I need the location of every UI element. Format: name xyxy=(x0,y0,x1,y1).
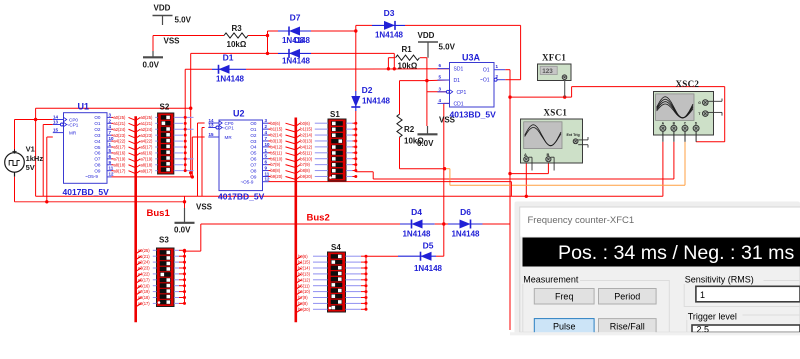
svg-text:13: 13 xyxy=(209,122,215,127)
svg-text:Period: Period xyxy=(614,291,640,301)
svg-text:U1: U1 xyxy=(78,102,90,112)
svg-text:VSS: VSS xyxy=(164,37,181,46)
svg-text:XSC2: XSC2 xyxy=(676,79,700,89)
svg-text:O6: O6 xyxy=(94,151,101,156)
svg-text:15: 15 xyxy=(53,127,59,132)
svg-text:D1: D1 xyxy=(223,53,234,63)
svg-text:O8: O8 xyxy=(250,168,257,173)
svg-text:b5(11): b5(11) xyxy=(298,283,310,288)
svg-text:Freq: Freq xyxy=(555,291,574,301)
svg-text:U2: U2 xyxy=(233,109,245,119)
svg-text:Pos. : 34 ms / Neg. : 31 ms: Pos. : 34 ms / Neg. : 31 ms xyxy=(558,242,795,264)
svg-text:b7(9): b7(9) xyxy=(298,295,308,300)
svg-text:O2: O2 xyxy=(94,127,101,132)
svg-text:CD1: CD1 xyxy=(454,101,464,107)
svg-text:O3: O3 xyxy=(250,139,257,144)
svg-text:D6: D6 xyxy=(460,207,471,217)
svg-text:U3A: U3A xyxy=(462,53,481,63)
svg-text:~CP1: ~CP1 xyxy=(222,126,234,131)
svg-text:a9(17): a9(17) xyxy=(114,168,126,173)
svg-text:a8(18): a8(18) xyxy=(141,162,153,167)
svg-text:b6(10): b6(10) xyxy=(271,156,283,161)
svg-text:MR: MR xyxy=(225,135,233,140)
svg-text:b9(20): b9(20) xyxy=(298,307,310,312)
svg-text:123: 123 xyxy=(542,68,553,75)
svg-text:D5: D5 xyxy=(423,241,434,251)
svg-text:10kΩ: 10kΩ xyxy=(227,40,247,49)
svg-text:SD1: SD1 xyxy=(454,67,464,73)
svg-text:b0(6): b0(6) xyxy=(300,121,310,126)
svg-text:a5(17): a5(17) xyxy=(114,145,126,150)
svg-text:V1: V1 xyxy=(26,145,35,154)
svg-text:b8(8): b8(8) xyxy=(298,301,308,306)
svg-text:O7: O7 xyxy=(250,162,257,167)
svg-text:O1: O1 xyxy=(94,121,101,126)
svg-text:a3(23): a3(23) xyxy=(138,266,150,271)
svg-text:b3(13): b3(13) xyxy=(300,139,312,144)
svg-text:a7(19): a7(19) xyxy=(138,289,150,294)
svg-text:a2(24): a2(24) xyxy=(114,127,126,132)
svg-text:b9(20): b9(20) xyxy=(271,174,283,179)
svg-text:a8(18): a8(18) xyxy=(138,295,150,300)
svg-text:1N4148: 1N4148 xyxy=(282,57,311,66)
svg-text:b5(11): b5(11) xyxy=(271,150,283,155)
svg-text:1kHz: 1kHz xyxy=(26,154,44,163)
svg-text:D3: D3 xyxy=(384,8,395,18)
svg-text:a3(23): a3(23) xyxy=(141,133,153,138)
svg-text:b4(12): b4(12) xyxy=(300,144,312,149)
svg-text:Frequency counter-XFC1: Frequency counter-XFC1 xyxy=(528,215,635,226)
svg-text:a2(24): a2(24) xyxy=(138,260,150,265)
svg-text:XSC1: XSC1 xyxy=(544,108,568,118)
svg-text:1N4148: 1N4148 xyxy=(451,230,480,239)
svg-text:a8(18): a8(18) xyxy=(114,162,126,167)
svg-text:0.0V: 0.0V xyxy=(174,225,191,234)
svg-text:10kΩ: 10kΩ xyxy=(398,62,418,71)
svg-text:D1: D1 xyxy=(454,78,461,84)
svg-text:a0(25): a0(25) xyxy=(138,248,150,253)
svg-text:~O5-9: ~O5-9 xyxy=(241,180,254,185)
svg-text:a1(21): a1(21) xyxy=(138,254,150,259)
svg-text:1: 1 xyxy=(700,290,705,300)
svg-text:Trigger level: Trigger level xyxy=(688,312,737,322)
svg-text:10: 10 xyxy=(265,142,271,147)
svg-text:Bus1: Bus1 xyxy=(147,208,171,219)
svg-text:VDD: VDD xyxy=(418,31,435,40)
svg-text:a6(16): a6(16) xyxy=(141,151,153,156)
svg-text:a9(17): a9(17) xyxy=(138,301,150,306)
svg-text:G: G xyxy=(698,101,701,105)
svg-text:b8(8): b8(8) xyxy=(300,168,310,173)
svg-text:O4: O4 xyxy=(94,139,101,144)
svg-text:13: 13 xyxy=(53,119,59,124)
svg-text:a1(21): a1(21) xyxy=(141,121,153,126)
svg-text:a9(17): a9(17) xyxy=(141,168,153,173)
svg-text:b6(10): b6(10) xyxy=(300,156,312,161)
svg-text:0.0V: 0.0V xyxy=(143,61,160,70)
svg-text:O5: O5 xyxy=(250,151,257,156)
svg-text:4017BD_5V: 4017BD_5V xyxy=(218,192,265,202)
svg-text:a7(19): a7(19) xyxy=(141,156,153,161)
svg-text:Bus2: Bus2 xyxy=(307,213,330,224)
svg-text:O8: O8 xyxy=(94,163,101,168)
svg-text:b7(9): b7(9) xyxy=(271,162,281,167)
svg-text:~O5-9: ~O5-9 xyxy=(85,174,98,179)
svg-text:VDD: VDD xyxy=(154,4,171,13)
svg-text:Sensitivity (RMS): Sensitivity (RMS) xyxy=(685,275,754,285)
svg-text:O1: O1 xyxy=(483,68,490,74)
svg-text:S4: S4 xyxy=(331,243,341,252)
svg-text:b2(14): b2(14) xyxy=(271,133,283,138)
svg-text:a3(23): a3(23) xyxy=(114,133,126,138)
svg-text:a4(22): a4(22) xyxy=(114,139,126,144)
svg-text:a6(16): a6(16) xyxy=(138,283,150,288)
svg-text:b8(8): b8(8) xyxy=(271,168,281,173)
svg-text:b0(6): b0(6) xyxy=(271,121,281,126)
svg-text:Ext Trig: Ext Trig xyxy=(567,133,580,137)
svg-text:Pulse: Pulse xyxy=(553,322,576,332)
svg-text:b7(9): b7(9) xyxy=(300,162,310,167)
svg-text:4017BD_5V: 4017BD_5V xyxy=(63,187,110,197)
svg-text:a0(25): a0(25) xyxy=(114,115,126,120)
svg-text:R3: R3 xyxy=(232,24,243,33)
svg-text:b1(15): b1(15) xyxy=(300,127,312,132)
svg-text:b3(13): b3(13) xyxy=(271,139,283,144)
svg-text:b1(15): b1(15) xyxy=(271,127,283,132)
svg-text:O1: O1 xyxy=(250,127,257,132)
svg-text:Rise/Fall: Rise/Fall xyxy=(610,322,645,332)
svg-text:b3(13): b3(13) xyxy=(298,272,310,277)
svg-text:O3: O3 xyxy=(94,133,101,138)
svg-text:O9: O9 xyxy=(94,168,101,173)
svg-text:a6(16): a6(16) xyxy=(114,151,126,156)
svg-text:b4(12): b4(12) xyxy=(298,277,310,282)
svg-text:1N4148: 1N4148 xyxy=(216,75,245,84)
svg-text:15: 15 xyxy=(209,132,215,137)
svg-text:5V: 5V xyxy=(26,163,35,172)
svg-text:S2: S2 xyxy=(160,103,170,112)
svg-text:b1(15): b1(15) xyxy=(298,260,310,265)
svg-text:0.0V: 0.0V xyxy=(417,139,434,148)
svg-text:12: 12 xyxy=(265,176,271,181)
svg-text:5.0V: 5.0V xyxy=(439,43,456,52)
svg-text:a4(22): a4(22) xyxy=(138,272,150,277)
svg-text:b2(14): b2(14) xyxy=(300,133,312,138)
svg-text:a4(22): a4(22) xyxy=(141,139,153,144)
svg-text:CP1: CP1 xyxy=(457,90,467,96)
svg-text:O5: O5 xyxy=(94,145,101,150)
svg-text:~CP1: ~CP1 xyxy=(67,123,79,128)
svg-text:1N4148: 1N4148 xyxy=(402,230,431,239)
svg-text:R1: R1 xyxy=(402,45,413,54)
svg-text:1N4148: 1N4148 xyxy=(414,264,443,273)
svg-text:1N4148: 1N4148 xyxy=(375,31,404,40)
svg-text:S3: S3 xyxy=(159,236,169,245)
svg-text:MR: MR xyxy=(69,131,77,136)
svg-text:5.0V: 5.0V xyxy=(175,16,192,25)
svg-text:D7: D7 xyxy=(290,13,301,23)
svg-text:a2(24): a2(24) xyxy=(141,127,153,132)
svg-text:D4: D4 xyxy=(411,207,422,217)
svg-text:a5(17): a5(17) xyxy=(138,277,150,282)
svg-text:b0(6): b0(6) xyxy=(298,254,308,259)
svg-text:D2: D2 xyxy=(362,85,373,95)
svg-text:R2: R2 xyxy=(404,125,415,134)
svg-text:O2: O2 xyxy=(250,133,257,138)
svg-text:b6(10): b6(10) xyxy=(298,289,310,294)
svg-text:S1: S1 xyxy=(330,110,340,119)
svg-text:O7: O7 xyxy=(94,157,101,162)
svg-text:O0: O0 xyxy=(250,121,257,126)
svg-text:b2(14): b2(14) xyxy=(298,266,310,271)
svg-text:VSS: VSS xyxy=(196,203,213,212)
svg-text:XFC1: XFC1 xyxy=(542,53,566,63)
svg-text:O4: O4 xyxy=(250,145,257,150)
svg-text:a7(19): a7(19) xyxy=(114,156,126,161)
svg-text:b9(20): b9(20) xyxy=(300,174,312,179)
svg-text:a5(17): a5(17) xyxy=(141,145,153,150)
svg-text:b4(12): b4(12) xyxy=(271,144,283,149)
svg-text:b5(11): b5(11) xyxy=(300,150,312,155)
svg-text:O6: O6 xyxy=(250,157,257,162)
svg-text:~O1: ~O1 xyxy=(480,78,490,84)
svg-text:4013BD_5V: 4013BD_5V xyxy=(450,110,497,120)
svg-text:Measurement: Measurement xyxy=(523,275,579,285)
svg-text:a0(25): a0(25) xyxy=(141,115,153,120)
svg-text:1N4148: 1N4148 xyxy=(362,97,391,106)
svg-text:O0: O0 xyxy=(94,115,101,120)
svg-text:D8: D8 xyxy=(294,36,305,45)
svg-text:a1(21): a1(21) xyxy=(114,121,126,126)
